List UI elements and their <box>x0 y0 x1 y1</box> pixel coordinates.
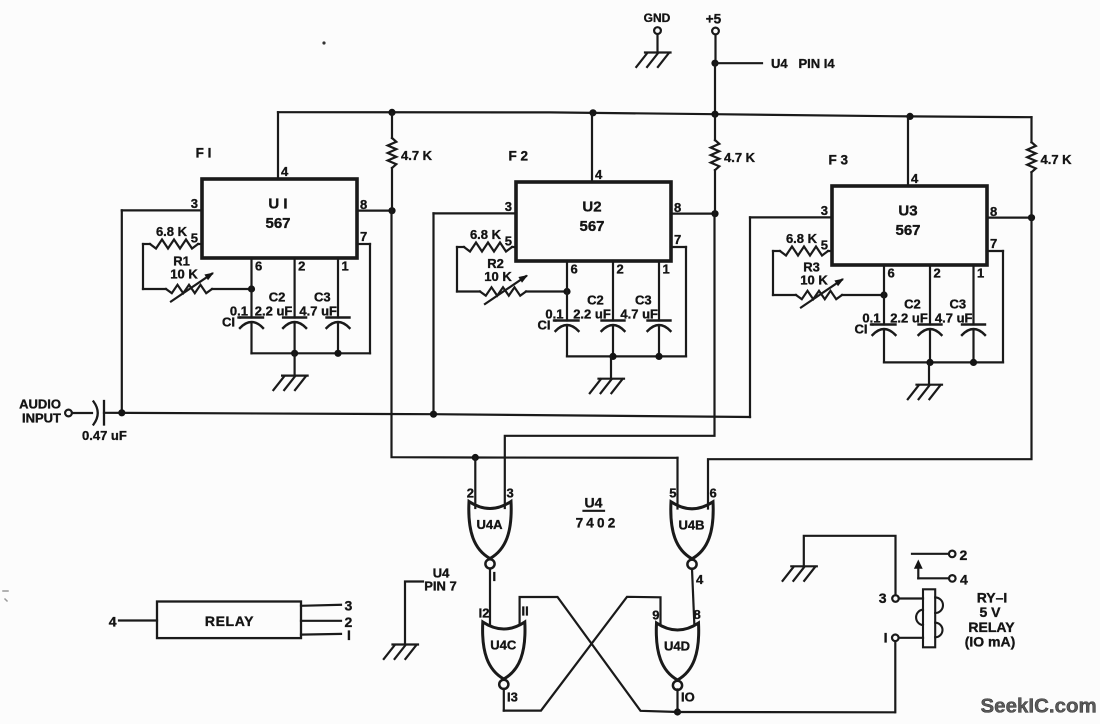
svg-text:2.2 uF: 2.2 uF <box>573 307 611 322</box>
node bus-U2 pin4 <box>589 109 596 116</box>
wire pin2 U I <box>295 258 306 318</box>
svg-text:PIN 7: PIN 7 <box>424 579 457 594</box>
wire ground rail (U I) <box>252 350 371 357</box>
svg-text:RELAY: RELAY <box>205 613 254 629</box>
ground (relay) <box>783 566 817 581</box>
wire relay contact-4 <box>918 571 968 587</box>
node U4D output junction <box>674 708 681 715</box>
node F2 label <box>509 149 529 164</box>
wire U4B output pin4 <box>692 569 704 624</box>
relay armature arrow <box>914 560 923 579</box>
ground (U4 pin 7) <box>384 645 418 660</box>
resistor 6.8K (U2) <box>457 227 516 252</box>
svg-text:1: 1 <box>663 262 670 277</box>
svg-text:4.7 K: 4.7 K <box>1041 152 1073 167</box>
wire input <box>72 412 92 414</box>
wire U3.8 to U4B.6 <box>708 218 1032 509</box>
svg-text:6.8 K: 6.8 K <box>470 227 502 242</box>
node scan artifact left edge <box>3 591 8 601</box>
IC U4 7402 label <box>576 495 619 531</box>
capacitor C2 2.2uF (U3) <box>890 297 941 363</box>
resistor 4.7K (U3 output pull-up) <box>1027 117 1072 218</box>
node U4 PIN 14 tap <box>711 56 835 71</box>
potentiometer R1 10K <box>166 254 252 302</box>
wire U4B pin5 drop <box>676 458 678 509</box>
IC U2 567 tone decoder <box>516 182 671 261</box>
node relay pin4 lead <box>109 614 157 630</box>
ground (U3) <box>908 362 942 399</box>
svg-text:C2: C2 <box>904 297 921 312</box>
svg-text:U4D: U4D <box>664 639 690 654</box>
node U4B pin5 label <box>669 486 676 501</box>
potentiometer R3 10K <box>796 260 884 308</box>
svg-text:C2: C2 <box>269 290 286 305</box>
svg-text:4: 4 <box>911 171 919 186</box>
node pin6 junction (U I) <box>248 285 255 292</box>
svg-text:U4: U4 <box>585 495 603 511</box>
svg-text:2: 2 <box>298 259 305 274</box>
svg-text:4: 4 <box>595 167 603 182</box>
svg-text:3: 3 <box>507 486 514 501</box>
svg-text:I: I <box>347 627 351 643</box>
wire feedback loop (U2) <box>457 247 480 292</box>
wire U4A output pin1 <box>490 569 496 625</box>
svg-text:4: 4 <box>109 614 117 630</box>
wire pin8 U2 <box>671 200 719 217</box>
svg-text:7: 7 <box>360 229 367 244</box>
wire +5 bus <box>278 112 1032 117</box>
wire pin8 U I <box>357 197 396 214</box>
capacitor C2 2.2uF (U2) <box>573 293 624 357</box>
svg-text:I2: I2 <box>479 606 490 621</box>
svg-text:GND: GND <box>644 11 671 25</box>
ground (U2) <box>590 356 624 393</box>
ground terminal GND <box>636 11 670 67</box>
wire relay contact 2 <box>301 614 353 630</box>
NOR gate U4C <box>483 622 525 689</box>
svg-text:4.7 uF: 4.7 uF <box>620 307 658 322</box>
capacitor C3 4.7uF (U2) <box>620 293 670 357</box>
ground (U I) <box>273 353 307 390</box>
wire pin1 U I <box>338 258 349 318</box>
svg-text:3: 3 <box>345 598 353 614</box>
svg-text:U I: U I <box>268 196 287 213</box>
svg-text:U4 PIN I4: U4 PIN I4 <box>771 56 835 71</box>
svg-text:4: 4 <box>281 164 289 179</box>
svg-text:4.7 K: 4.7 K <box>401 148 433 163</box>
svg-text:F 3: F 3 <box>829 153 849 168</box>
IC UI 567 tone decoder <box>202 179 357 258</box>
svg-text:10 K: 10 K <box>170 267 198 282</box>
relay coil RY-1 <box>916 589 943 647</box>
wire pin3 U2 <box>434 199 517 414</box>
svg-text:CI: CI <box>538 318 551 333</box>
node U4 PIN 7 label <box>424 566 457 594</box>
svg-text:U4B: U4B <box>678 517 704 532</box>
svg-text:6: 6 <box>255 259 262 274</box>
svg-text:IO: IO <box>681 690 695 705</box>
potentiometer R2 10K <box>480 256 567 304</box>
wire pin8 U3 <box>987 204 1035 221</box>
resistor 6.8K (U I) <box>143 224 202 249</box>
svg-text:AUDIO: AUDIO <box>19 397 61 412</box>
capacitor C3 4.7uF (U3) <box>935 297 985 363</box>
svg-text:567: 567 <box>579 218 604 235</box>
node U4A pin2 tap <box>472 454 479 461</box>
node scan speck <box>322 41 325 44</box>
wire U4A pin2 drop <box>474 458 476 509</box>
svg-text:5 V: 5 V <box>979 604 1001 620</box>
svg-text:2: 2 <box>960 547 968 563</box>
svg-text:3: 3 <box>505 199 512 214</box>
svg-text:INPUT: INPUT <box>22 411 61 426</box>
wire U2.8 to U4A.3 <box>505 214 715 508</box>
svg-text:3: 3 <box>879 590 887 606</box>
node bus +5 entry <box>711 111 718 118</box>
node AUDIO INPUT terminal <box>19 397 72 426</box>
node F3 label <box>829 153 849 168</box>
svg-text:6.8 K: 6.8 K <box>786 231 818 246</box>
node RY-1 label <box>965 590 1016 650</box>
svg-text:+5: +5 <box>706 12 722 27</box>
svg-text:U4C: U4C <box>490 638 517 653</box>
node relay pin 3 <box>879 590 923 606</box>
wire relay contact 3 <box>301 598 353 614</box>
svg-text:6.8 K: 6.8 K <box>156 224 188 239</box>
svg-text:I3: I3 <box>507 690 518 705</box>
wire pin3 U I <box>122 196 202 413</box>
wire relay pin1 down <box>894 641 896 712</box>
node U4C pin11 label <box>522 604 529 619</box>
NOR gate U4D <box>656 623 698 690</box>
wire pin7 U3 <box>987 236 1003 362</box>
svg-text:4: 4 <box>960 571 968 587</box>
node U4A pin2 label <box>467 486 474 501</box>
svg-text:3: 3 <box>191 196 198 211</box>
power +5 terminal <box>706 12 722 64</box>
wire to relay coil <box>678 711 895 713</box>
node bus-U3 pin4 <box>906 113 913 120</box>
wire U4 pin7 ground <box>405 582 423 645</box>
wire ground rail (U2) <box>567 353 686 360</box>
wire U4C output pin13 <box>504 689 518 711</box>
wire pin2 U3 <box>930 265 941 325</box>
wire pin7 U2 <box>671 232 686 356</box>
svg-text:CI: CI <box>855 322 868 337</box>
capacitor C3 4.7uF (U I) <box>299 290 349 354</box>
wire pin1 U2 <box>659 261 670 321</box>
wire feedback loop (U3) <box>773 251 796 295</box>
svg-text:1: 1 <box>342 259 349 274</box>
wire U4D.10 to U4C.11 <box>520 597 678 712</box>
svg-text:7: 7 <box>674 232 681 247</box>
svg-text:C3: C3 <box>949 297 966 312</box>
wire pin2 U2 <box>613 261 624 321</box>
NOR gate U4A <box>469 502 511 569</box>
node pin6 junction (U3) <box>880 291 887 298</box>
wire pin7 U I <box>357 229 370 353</box>
svg-text:567: 567 <box>895 222 920 239</box>
svg-text:8: 8 <box>990 204 997 219</box>
node U4D pin8 label <box>694 607 701 622</box>
wire pin3 U3 <box>750 203 832 417</box>
svg-text:8: 8 <box>674 200 681 215</box>
svg-text:4.7 uF: 4.7 uF <box>299 304 337 319</box>
svg-text:7: 7 <box>990 236 997 251</box>
node bus-U1 <box>388 109 395 116</box>
svg-text:II: II <box>522 604 529 619</box>
svg-text:10 K: 10 K <box>484 269 512 284</box>
wire U4D output pin10 <box>678 689 695 712</box>
svg-text:10 K: 10 K <box>800 273 828 288</box>
svg-text:4.7 K: 4.7 K <box>724 150 756 165</box>
node FI label <box>196 146 212 161</box>
capacitor C1 0.1uF (U3) <box>855 311 896 363</box>
NOR gate U4B <box>671 502 713 569</box>
capacitor C2 2.2uF (U I) <box>255 290 306 354</box>
node SeekIC.com watermark <box>981 695 1097 718</box>
svg-text:RELAY: RELAY <box>968 619 1015 635</box>
svg-text:F I: F I <box>196 146 212 161</box>
svg-text:6: 6 <box>888 266 895 281</box>
wire U4C.13 to U4D.9 <box>504 597 661 711</box>
svg-text:C3: C3 <box>635 293 652 308</box>
wire relay pin3 to ground <box>804 536 896 595</box>
relay contact box RELAY <box>157 602 301 639</box>
node U4B pin6 label <box>710 486 717 501</box>
wire pin6 U2 <box>567 261 578 321</box>
svg-text:SeekIC.com: SeekIC.com <box>981 695 1097 718</box>
node audio-U2 <box>430 411 437 418</box>
capacitor 0.47uF input coupling <box>82 401 127 443</box>
svg-text:U2: U2 <box>582 199 601 216</box>
wire audio bus <box>104 413 750 417</box>
svg-text:6: 6 <box>710 486 717 501</box>
svg-text:2: 2 <box>934 266 941 281</box>
IC U3 567 tone decoder <box>832 186 987 265</box>
wire relay contact-2 <box>912 547 968 563</box>
wire pin6 U I <box>252 258 263 318</box>
wire feedback loop (U I) <box>143 244 166 289</box>
svg-text:U3: U3 <box>898 203 917 220</box>
svg-text:2.2 uF: 2.2 uF <box>255 304 293 319</box>
node U4D pin9 label <box>652 608 659 623</box>
capacitor C1 0.1uF (U2) <box>538 307 579 357</box>
node pin6 junction (U2) <box>563 288 570 295</box>
svg-text:2: 2 <box>467 486 474 501</box>
svg-text:4: 4 <box>696 572 704 587</box>
svg-text:(IO mA): (IO mA) <box>965 634 1016 650</box>
svg-text:1: 1 <box>977 266 984 281</box>
resistor 4.7K (U I output pull-up) <box>388 113 433 211</box>
node U4C pin12 label <box>479 606 490 621</box>
svg-text:4.7 uF: 4.7 uF <box>935 311 973 326</box>
node audio-U1 <box>118 409 125 416</box>
wire relay contact 1 <box>301 627 351 643</box>
resistor 4.7K (U2 output pull-up) <box>711 115 756 214</box>
wire pin4 U3 <box>908 116 919 186</box>
svg-text:6: 6 <box>571 262 578 277</box>
node relay pin 1 <box>884 630 923 646</box>
svg-text:I: I <box>493 569 497 584</box>
svg-text:CI: CI <box>222 315 235 330</box>
wire pin4 U I <box>278 112 289 179</box>
resistor 6.8K (U3) <box>773 231 832 256</box>
svg-text:2.2 uF: 2.2 uF <box>890 311 928 326</box>
svg-text:F 2: F 2 <box>509 149 529 164</box>
svg-text:5: 5 <box>669 486 676 501</box>
node U4A pin3 label <box>507 486 514 501</box>
wire pin4 U2 <box>592 114 603 182</box>
svg-text:3: 3 <box>821 203 828 218</box>
svg-text:2: 2 <box>617 262 624 277</box>
capacitor C1 0.1uF (U I) <box>222 304 263 354</box>
svg-text:7402: 7402 <box>576 516 619 531</box>
svg-text:C3: C3 <box>314 290 331 305</box>
svg-text:9: 9 <box>652 608 659 623</box>
svg-text:8: 8 <box>360 197 367 212</box>
svg-text:0.47 uF: 0.47 uF <box>82 428 127 443</box>
wire +5 stem <box>714 63 716 114</box>
svg-text:U4A: U4A <box>476 517 503 532</box>
svg-text:I: I <box>884 630 888 646</box>
wire pin1 U3 <box>974 265 985 325</box>
svg-text:C2: C2 <box>587 293 604 308</box>
wire pin6 U3 <box>884 265 895 325</box>
wire U1.8 to U4A.2/U4B.5 <box>392 211 678 458</box>
wire ground rail (U3) <box>884 359 1003 366</box>
svg-text:567: 567 <box>265 215 290 232</box>
svg-text:8: 8 <box>694 607 701 622</box>
